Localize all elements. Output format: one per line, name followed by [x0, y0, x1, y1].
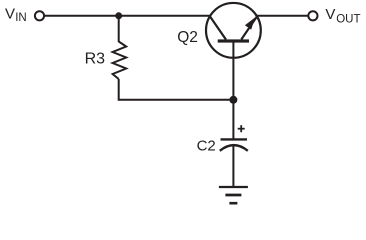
ground [219, 187, 248, 203]
terminal VIN [35, 11, 44, 20]
svg-text:OUT: OUT [336, 14, 360, 26]
svg-text:R3: R3 [85, 51, 106, 68]
wire Q2 emitter to VOUT [257, 15, 308, 17]
svg-text:V: V [325, 6, 335, 23]
resistor R3 [113, 42, 127, 80]
transistor Q2 circle [206, 3, 261, 58]
transistor Q2 collector lead [210, 16, 226, 40]
svg-text:V: V [5, 5, 15, 22]
wire VIN to Q2 collector [45, 15, 210, 17]
wire Q2 base to C2 top [232, 42, 234, 139]
capacitor C2 bottom plate [220, 145, 248, 151]
capacitor C2 plus polarity mark [238, 125, 245, 132]
capacitor C2 top plate [221, 138, 248, 140]
transistor Q2 base bar [218, 39, 249, 42]
terminal VOUT [308, 11, 317, 20]
svg-text:Q2: Q2 [177, 29, 198, 46]
wire junction to R3 top [118, 16, 120, 42]
svg-text:C2: C2 [197, 137, 216, 154]
junction bottom node [229, 96, 237, 104]
wire C2 to ground [232, 145, 234, 188]
svg-text:IN: IN [15, 12, 27, 24]
wire R3 bottom to bottom node [119, 79, 234, 100]
transistor Q2 emitter arrow [245, 18, 255, 30]
junction top node [115, 12, 122, 19]
transistor Q2 emitter lead [241, 16, 257, 39]
